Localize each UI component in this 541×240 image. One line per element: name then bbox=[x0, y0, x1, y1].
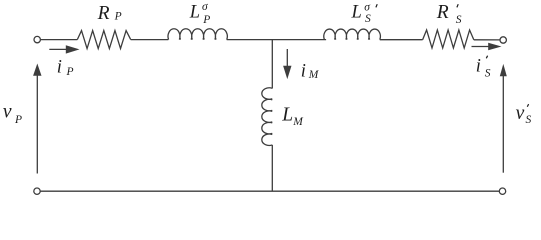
svg-text:P: P bbox=[14, 114, 22, 126]
wire: top rail, R_P to L_P bbox=[131, 39, 169, 41]
inductor L_P (primary leakage) bbox=[168, 29, 227, 40]
wire: top rail, left terminal to R_P bbox=[41, 39, 78, 41]
svg-text:M: M bbox=[292, 116, 304, 128]
current arrow i_P bbox=[49, 48, 67, 50]
current arrow i_S' bbox=[472, 46, 490, 48]
svg-text:P: P bbox=[66, 66, 74, 78]
terminal: secondary bottom (right lower) bbox=[499, 188, 505, 194]
current arrow i_M bbox=[286, 49, 288, 67]
inductor L_M (magnetizing branch) bbox=[262, 88, 272, 146]
terminal: secondary top (right upper) bbox=[500, 37, 506, 43]
svg-text:P: P bbox=[202, 14, 210, 26]
resistor R_P bbox=[77, 31, 130, 49]
voltage arrow v_S' (right, pointing up) bbox=[502, 76, 504, 173]
voltage arrow v_P (left, pointing up) bbox=[36, 76, 38, 174]
svg-text:L: L bbox=[281, 105, 293, 126]
svg-text:L: L bbox=[189, 2, 200, 22]
wire: top rail, L_P through node T to L_S bbox=[227, 39, 326, 41]
svg-text:L: L bbox=[351, 2, 362, 22]
svg-text:P: P bbox=[114, 11, 122, 23]
svg-text:S: S bbox=[526, 114, 532, 126]
svg-text:S: S bbox=[365, 13, 371, 25]
svg-text:i: i bbox=[476, 57, 481, 77]
terminal: primary bottom (left lower) bbox=[34, 188, 40, 194]
wire: center branch upper segment (node T down to L_M) bbox=[271, 40, 273, 89]
svg-text:i: i bbox=[57, 57, 62, 77]
svg-text:σ: σ bbox=[202, 1, 209, 13]
svg-text:R: R bbox=[436, 2, 449, 23]
svg-text:S: S bbox=[456, 14, 462, 26]
wire: bottom rail between lower terminals bbox=[40, 190, 499, 192]
resistor R_S' (secondary, referred) bbox=[423, 30, 474, 48]
svg-text:v: v bbox=[516, 103, 525, 124]
inductor L_S' (secondary leakage, referred) bbox=[324, 29, 381, 40]
wire: top rail, L_S to R_S bbox=[380, 39, 423, 41]
wire: center branch lower segment (L_M to bottom rail) bbox=[271, 145, 273, 191]
svg-text:S: S bbox=[485, 67, 491, 79]
terminal: primary top (left upper) bbox=[34, 36, 40, 42]
svg-text:σ: σ bbox=[364, 1, 371, 13]
svg-text:M: M bbox=[308, 69, 320, 81]
svg-text:i: i bbox=[301, 61, 306, 81]
svg-text:R: R bbox=[97, 3, 110, 24]
svg-text:v: v bbox=[3, 102, 12, 123]
wire: top rail, R_S to right terminal bbox=[474, 39, 500, 41]
